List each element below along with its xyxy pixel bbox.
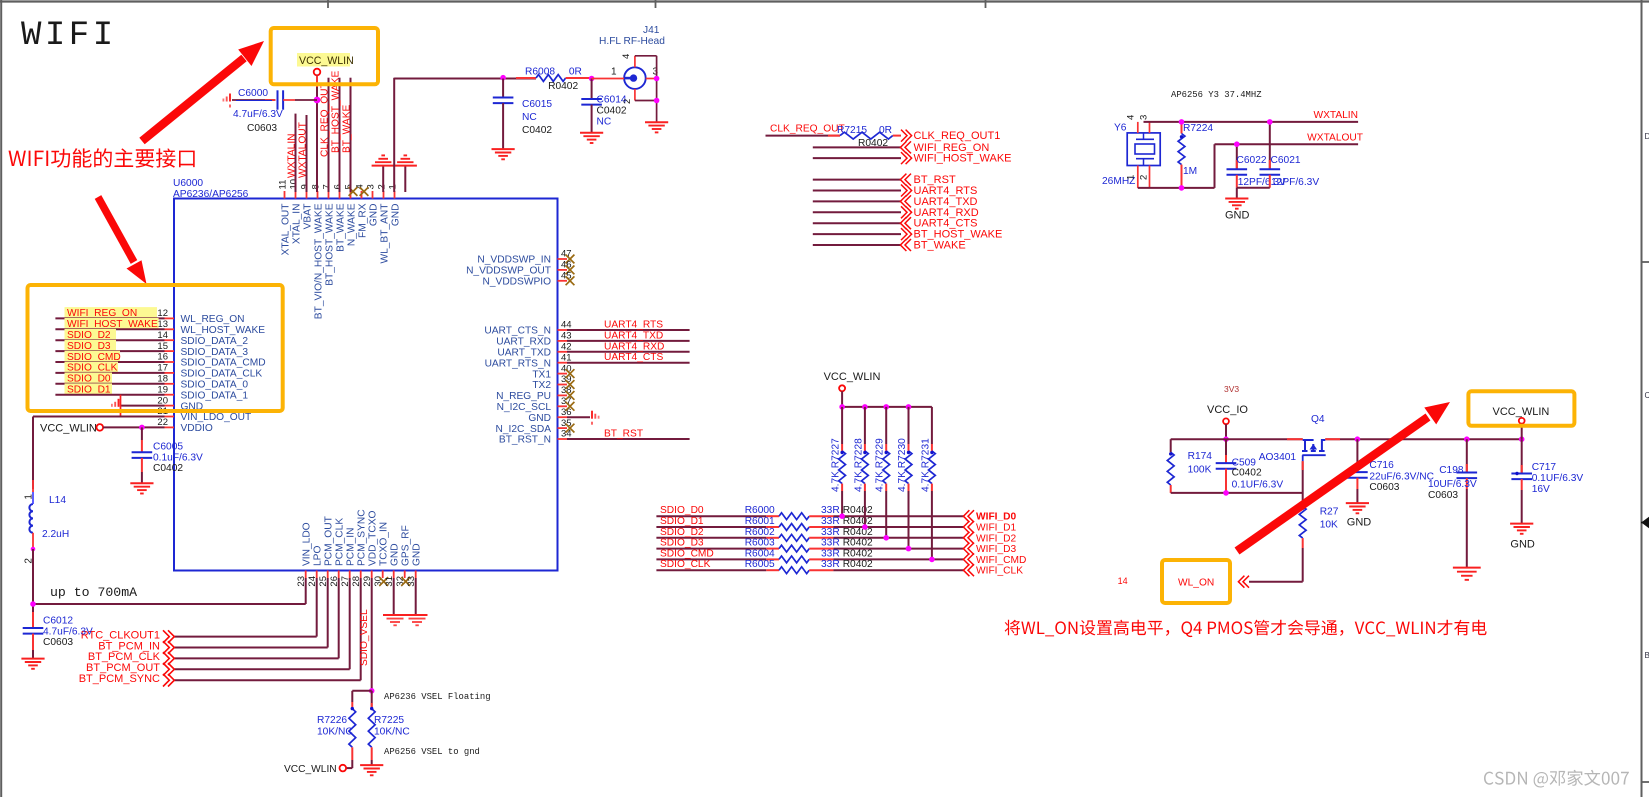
svg-text:4.7K R7230: 4.7K R7230	[897, 438, 908, 492]
svg-text:R0402: R0402	[843, 505, 873, 516]
svg-text:0R: 0R	[879, 125, 892, 136]
svg-text:VCC_WLIN: VCC_WLIN	[1493, 406, 1550, 418]
signal ground glyph (pin20)	[118, 399, 120, 407]
svg-text:1M: 1M	[1183, 166, 1197, 177]
svg-text:SDIO_DATA_CMD: SDIO_DATA_CMD	[181, 358, 266, 369]
annotation red arrow to signal list box	[98, 197, 147, 284]
svg-text:CLK_REQ_OUT: CLK_REQ_OUT	[770, 124, 845, 135]
wire BT_RST	[813, 179, 901, 181]
junction R7230/WIFI_D3	[906, 546, 912, 552]
svg-text:SDIO_DATA_CLK: SDIO_DATA_CLK	[181, 369, 263, 380]
svg-text:UART4_RXD: UART4_RXD	[604, 341, 664, 352]
wire CLK_REQ_OUT	[766, 135, 841, 137]
ground (R7225)	[360, 764, 383, 766]
capacitor C716 22uF NC	[1347, 439, 1434, 503]
net label SDIO_CLK (pin 17, highlighted)	[65, 362, 119, 374]
wire VCC_WLIN right to rail	[1521, 424, 1523, 440]
wire SDIO_D1 right segment	[809, 526, 833, 528]
wire Q4 gate down	[1302, 461, 1304, 506]
svg-text:3: 3	[653, 67, 659, 78]
svg-text:C6012: C6012	[43, 615, 73, 626]
wire SDIO_D1 left segment	[656, 526, 766, 528]
IC U6000 right pin 46 (N_VDDSWP_OUT)	[466, 260, 574, 277]
resistor R7230 4.7K	[897, 407, 912, 492]
svg-text:2: 2	[622, 99, 633, 104]
svg-text:GND: GND	[1347, 517, 1372, 529]
svg-text:CLK_REQ_OUT: CLK_REQ_OUT	[320, 82, 331, 157]
wire R7228 to WIFI_D1	[864, 491, 866, 527]
svg-text:GND: GND	[1225, 210, 1250, 222]
junction J41 pin3	[654, 76, 660, 82]
wire pin3 to ground	[382, 166, 384, 192]
svg-text:4.7K R7231: 4.7K R7231	[920, 438, 931, 492]
wire pin20 GND	[121, 405, 165, 407]
junction R7224 bottom	[1179, 185, 1185, 191]
net WXTALOUT wire (pin10)	[306, 115, 308, 192]
IC U6000 top pin 5 (N_WAKE)	[344, 184, 358, 246]
wire VCC_WLIN to VBAT pin9	[316, 75, 318, 192]
wire BT_RST (pin34)	[567, 438, 690, 440]
wire pin36 GND	[567, 416, 590, 418]
ground (crystal)	[1225, 198, 1248, 200]
svg-text:2: 2	[377, 184, 388, 189]
capacitor C6000	[232, 88, 317, 134]
svg-text:C0402: C0402	[1232, 468, 1262, 479]
port chevron WIFI_REG_ON	[905, 141, 911, 153]
svg-text:N_REG_PU: N_REG_PU	[496, 391, 551, 402]
svg-text:10: 10	[289, 179, 300, 190]
wire SDIO_D3 left segment	[656, 548, 766, 550]
svg-text:C716: C716	[1369, 460, 1394, 471]
svg-text:10UF/6.3V: 10UF/6.3V	[1428, 479, 1477, 490]
svg-text:R7225: R7225	[374, 715, 404, 726]
wire WXTALOUT	[1215, 143, 1359, 145]
IC U6000 right pin 45 (N_VDDSWPIO)	[483, 271, 575, 288]
svg-text:WIFI_CLK: WIFI_CLK	[976, 566, 1023, 577]
svg-text:H.FL RF-Head: H.FL RF-Head	[599, 36, 665, 47]
svg-text:up to 700mA: up to 700mA	[50, 585, 137, 600]
svg-text:GND: GND	[1510, 539, 1535, 551]
svg-text:WL_BT_ANT: WL_BT_ANT	[379, 204, 390, 264]
resistor R6002 33R	[745, 527, 873, 541]
capacitor C717 0.1UF 16V	[1511, 439, 1583, 523]
wire R7229 to WIFI_D2	[885, 491, 887, 538]
wire SDIO_D1 (pin 19)	[55, 394, 164, 396]
power terminal VCC_WLIN (pull-up rail)	[824, 371, 881, 391]
svg-text:4.7K R7229: 4.7K R7229	[875, 438, 886, 492]
wire VCC_WLIN to rail	[841, 391, 843, 407]
wire R7230 to WIFI_D3	[908, 491, 910, 549]
svg-text:PCM_CLK: PCM_CLK	[335, 518, 346, 566]
junction rail R7227	[839, 404, 845, 410]
svg-text:UART4_RTS: UART4_RTS	[604, 320, 663, 331]
inductor L14	[24, 480, 70, 564]
IC U6000 right pin 41 (UART_RTS_N)	[485, 352, 572, 369]
svg-text:VIN_LDO_OUT: VIN_LDO_OUT	[181, 412, 252, 423]
port chevron WIFI_CLK	[968, 564, 974, 576]
port chevron CLK_REQ_OUT1	[901, 130, 907, 142]
svg-text:NC: NC	[522, 112, 537, 123]
svg-text:UART4_CTS: UART4_CTS	[604, 352, 663, 363]
svg-text:33R: 33R	[821, 527, 840, 538]
junction SDIO_VSEL	[369, 688, 375, 694]
ground (C6014)	[580, 132, 603, 134]
IC U6000 top pin 1 (GND)	[388, 184, 402, 226]
svg-text:33R: 33R	[821, 559, 840, 570]
svg-text:R6002: R6002	[745, 527, 775, 538]
wire pin31 GND	[393, 578, 395, 615]
svg-text:BT_RST: BT_RST	[604, 429, 643, 440]
svg-text:C0603: C0603	[43, 637, 73, 648]
port chevron BT_WAKE	[905, 239, 911, 251]
annotation red arrow to VCC_WLIN box (top)	[142, 41, 264, 141]
IC U6000 left pin 17 (SDIO_DATA_CLK)	[157, 363, 262, 380]
wire crystal bottom	[1138, 187, 1215, 189]
wire SDIO_D0 (pin 18)	[55, 383, 164, 385]
svg-text:VCC_WLIN: VCC_WLIN	[824, 371, 881, 383]
svg-text:VCC_WLIN: VCC_WLIN	[299, 55, 354, 67]
resistor R6005 33R	[745, 559, 873, 573]
port chevron BT_PCM_CLK	[163, 652, 169, 665]
port chevron WIFI_CMD	[968, 553, 974, 565]
wire R7231 to WIFI_CMD	[931, 491, 933, 559]
svg-text:3V3: 3V3	[1224, 384, 1239, 394]
capacitor C6014 (NC)	[581, 79, 627, 133]
svg-text:R0402: R0402	[843, 527, 873, 538]
ground (C6012)	[21, 658, 44, 660]
wire UART4_RTS	[813, 190, 901, 192]
IC U6000 right pin 37 (N_I2C_SCL)	[497, 396, 575, 413]
svg-text:AP6236/AP6256: AP6236/AP6256	[173, 189, 249, 200]
svg-text:0.1UF/6.3V: 0.1UF/6.3V	[1532, 473, 1584, 484]
IC U6000 left pin 21 (VIN_LDO_OUT)	[157, 406, 251, 423]
svg-text:SDIO_CMD: SDIO_CMD	[660, 548, 714, 559]
wire SDIO_CLK left segment	[656, 569, 766, 571]
svg-text:SDIO_DATA_1: SDIO_DATA_1	[181, 390, 249, 401]
svg-text:R7215: R7215	[837, 125, 867, 136]
svg-text:R7226: R7226	[317, 715, 347, 726]
svg-text:VDD_TCXO: VDD_TCXO	[368, 510, 379, 566]
IC U6000 bottom pin 23 (VIN_LDO)	[296, 522, 312, 586]
svg-text:9: 9	[300, 184, 311, 189]
svg-text:1: 1	[388, 184, 399, 189]
svg-text:C717: C717	[1532, 462, 1557, 473]
svg-text:3: 3	[1139, 115, 1150, 120]
wire R174 branch	[1170, 439, 1172, 452]
svg-text:UART_RXD: UART_RXD	[496, 337, 551, 348]
svg-text:R0402: R0402	[843, 538, 873, 549]
svg-text:C0402: C0402	[153, 463, 183, 474]
watermark CSDN	[1484, 770, 1629, 788]
IC U6000 bottom pin 25 (PCM_OUT)	[318, 516, 334, 586]
svg-text:0R: 0R	[569, 67, 582, 78]
svg-text:R0402: R0402	[548, 81, 578, 92]
wire VDDIO pin22	[103, 426, 164, 428]
IC U6000 top pin 3 (GND)	[366, 184, 380, 226]
svg-text:GND: GND	[528, 413, 551, 424]
svg-text:C0402: C0402	[522, 125, 552, 136]
wire BT_PCM staircase pin 24	[316, 578, 318, 637]
ground (C6005)	[130, 482, 153, 484]
svg-text:R0402: R0402	[843, 548, 873, 559]
svg-text:B: B	[1645, 651, 1649, 660]
net BT_HOST_WAKE wire (pin7)	[339, 78, 341, 192]
junction C509 bottom	[1223, 490, 1229, 496]
junction C6014/J41	[589, 76, 595, 82]
junction C716	[1355, 436, 1361, 442]
resistor R7224 1M	[1178, 122, 1213, 188]
highlight box WL_ON	[1162, 560, 1230, 603]
svg-text:VIN_LDO: VIN_LDO	[302, 522, 313, 566]
wire R7215 to port	[893, 135, 901, 137]
svg-text:C0402: C0402	[597, 106, 627, 117]
IC U6000 bottom pin 26 (PCM_CLK)	[329, 518, 345, 587]
svg-text:WXTALIN: WXTALIN	[1313, 110, 1358, 121]
port chevron BT_PCM_IN	[163, 641, 169, 654]
IC U6000 right pin 36 (GND)	[528, 407, 571, 424]
svg-text:GND: GND	[390, 543, 401, 566]
junction R7228/WIFI_D1	[862, 524, 868, 530]
wire BT_PCM staircase pin 27	[349, 578, 351, 669]
port chevron WIFI_D1	[968, 521, 974, 533]
wire VSEL left branch	[352, 690, 371, 692]
power terminal VCC_WLIN (top)	[297, 53, 354, 75]
IC U6000 top pin 4 (FM_RX)	[355, 184, 369, 238]
svg-text:10K/NC: 10K/NC	[317, 726, 353, 737]
svg-text:SDIO_CLK: SDIO_CLK	[660, 559, 711, 570]
svg-text:4.7uF/6.3V: 4.7uF/6.3V	[233, 109, 283, 120]
net WXTALIN wire (pin11)	[295, 114, 297, 192]
capacitor C6012	[23, 612, 93, 659]
port chevron UART4_RXD	[901, 206, 907, 218]
svg-text:22uF/6.3V/NC: 22uF/6.3V/NC	[1369, 471, 1434, 482]
connector J41 H.FL RF-Head	[592, 25, 666, 122]
svg-text:BT_WAKE: BT_WAKE	[342, 104, 353, 153]
power terminal VCC_WLIN (pin22 VDDIO)	[40, 422, 103, 434]
resistor R7231 4.7K	[920, 407, 935, 492]
IC U6000 right pin 44 (UART_CTS_N)	[484, 320, 571, 337]
IC U6000 bottom pin 29 (VDD_TCXO)	[362, 510, 378, 586]
svg-text:WIFI_D0: WIFI_D0	[976, 512, 1017, 523]
svg-text:R27: R27	[1320, 507, 1339, 518]
ground (C6015)	[492, 148, 515, 150]
resistor R27 10K	[1299, 507, 1338, 549]
wire WL_BT_ANT pin2 up to RF path	[393, 78, 395, 192]
wire WIFI_HOST_WAKE (pin 13)	[55, 328, 164, 330]
svg-text:BT_WAKE: BT_WAKE	[335, 203, 346, 252]
svg-text:BT_HOST_WAKE: BT_HOST_WAKE	[324, 203, 335, 285]
ground (J41)	[645, 121, 668, 123]
resistor R6000 33R	[745, 505, 873, 519]
svg-text:N_I2C_SCL: N_I2C_SCL	[497, 402, 552, 413]
junction C198	[1464, 436, 1470, 442]
svg-text:R6003: R6003	[745, 538, 775, 549]
IC U6000 left pin 16 (SDIO_DATA_CMD)	[157, 352, 265, 369]
svg-text:WIFI_D3: WIFI_D3	[976, 544, 1017, 555]
IC U6000 left pin 18 (SDIO_DATA_0)	[157, 374, 248, 391]
svg-text:0.1UF/6.3V: 0.1UF/6.3V	[1232, 479, 1284, 490]
net label SDIO_D0 (pin 18, highlighted)	[65, 373, 113, 385]
svg-text:WIFI_D2: WIFI_D2	[976, 533, 1017, 544]
net label SDIO_D1 (pin 19, highlighted)	[65, 383, 113, 395]
svg-text:WIFI_D1: WIFI_D1	[976, 523, 1017, 534]
signal ground glyph (C6000)	[229, 94, 231, 102]
net label SDIO_D2 (pin 14, highlighted)	[65, 329, 117, 341]
wire UART4_RXD (pin 42)	[567, 351, 690, 353]
svg-text:UART_TXD: UART_TXD	[497, 348, 551, 359]
svg-text:NC: NC	[597, 117, 612, 128]
wire R7226 to VCC_WLIN	[351, 760, 353, 768]
IC U6000 bottom pin 33 (GND)	[406, 543, 422, 586]
svg-text:4.7K R7228: 4.7K R7228	[853, 438, 864, 492]
svg-text:33R: 33R	[821, 516, 840, 527]
capacitor C6021 12PF	[1260, 122, 1320, 188]
svg-text:WXTALOUT: WXTALOUT	[1307, 132, 1363, 143]
svg-text:R0402: R0402	[843, 516, 873, 527]
junction VCC_IO	[1223, 436, 1229, 442]
junction C6021 top	[1267, 119, 1273, 125]
svg-text:SDIO_D3: SDIO_D3	[660, 538, 704, 549]
svg-text:AO3401: AO3401	[1259, 452, 1297, 463]
port chevron BT_PCM_SYNC	[163, 674, 169, 687]
wire VCC_IO to rail	[1225, 424, 1227, 439]
svg-text:2: 2	[1139, 175, 1150, 180]
junction R7227/WIFI_D0	[839, 513, 845, 519]
IC U6000 right pin 34 (BT_RST_N)	[499, 429, 572, 446]
transistor Q4 AO3401 (PMOS)	[1259, 414, 1326, 463]
wire BT_WAKE	[813, 244, 901, 246]
net label SDIO_CMD (pin 16, highlighted)	[65, 351, 121, 363]
junction L14 bottom	[31, 547, 36, 552]
port chevron BT_HOST_WAKE	[901, 228, 907, 240]
wire BT_PCM staircase pin 26	[338, 578, 340, 658]
svg-text:BT_VIO/N_HOST_WAKE: BT_VIO/N_HOST_WAKE	[313, 203, 324, 319]
IC U6000 top pin 11 (XTAL_OUT)	[278, 180, 292, 256]
highlight box WIFI signal list	[28, 285, 283, 411]
svg-text:Y6: Y6	[1114, 123, 1127, 134]
IC U6000 right pin 43 (UART_RXD)	[496, 331, 571, 348]
IC U6000 top pin 6 (BT_WAKE)	[333, 184, 347, 252]
net CLK_REQ_OUT wire (pin8)	[328, 78, 330, 192]
svg-text:N_VDDSWP_IN: N_VDDSWP_IN	[477, 255, 551, 266]
junction J41 pin2	[654, 98, 660, 104]
ground (pins 31/33)	[383, 615, 428, 625]
net label WIFI_REG_ON (pin 12, highlighted)	[65, 307, 158, 319]
wire WIFI_HOST_WAKE	[813, 157, 901, 159]
IC U6000 right pin 40 (TX1)	[532, 363, 574, 380]
svg-text:SDIO_D2: SDIO_D2	[660, 527, 704, 538]
wire WIFI_REG_ON	[813, 146, 901, 148]
svg-text:L14: L14	[49, 495, 66, 506]
svg-text:10K: 10K	[1320, 519, 1338, 530]
svg-text:4.7K R7227: 4.7K R7227	[831, 438, 842, 492]
svg-text:WL_HOST_WAKE: WL_HOST_WAKE	[181, 325, 266, 336]
svg-text:C0603: C0603	[1369, 482, 1399, 493]
svg-text:1: 1	[1126, 175, 1137, 180]
IC U6000 left pin 14 (SDIO_DATA_2)	[157, 330, 248, 347]
svg-text:2.2uH: 2.2uH	[42, 529, 69, 540]
svg-text:UART4_TXD: UART4_TXD	[604, 330, 663, 341]
IC U6000 top pin 8 (BT_VIO/N_HOST_WAKE)	[311, 184, 325, 319]
svg-text:AP6256 VSEL to gnd: AP6256 VSEL to gnd	[384, 747, 480, 757]
svg-text:C198: C198	[1439, 465, 1464, 476]
power terminal VCC_WLIN (right)	[1493, 406, 1550, 424]
wire BT_HOST_WAKE	[813, 233, 901, 235]
wire SDIO_CMD left segment	[656, 558, 766, 560]
IC U6000 top pin 9 (VBAT)	[300, 184, 314, 229]
junction pin9/C6000	[314, 97, 321, 104]
svg-text:4: 4	[621, 54, 632, 59]
svg-text:R6005: R6005	[745, 559, 775, 570]
svg-text:VCC_WLIN: VCC_WLIN	[284, 764, 337, 775]
port chevron WL_ON	[1243, 576, 1249, 588]
crystal Y6 26MHZ	[1102, 115, 1160, 188]
port chevron WIFI_HOST_WAKE	[901, 152, 907, 164]
svg-text:R6008: R6008	[525, 67, 555, 78]
wire SDIO_D0 right segment	[809, 515, 833, 517]
resistor R6003 33R	[745, 538, 873, 552]
wire UART4_RXD	[813, 211, 901, 213]
power terminal VCC_WLIN (VSEL)	[284, 764, 346, 775]
svg-text:BT_PCM_SYNC: BT_PCM_SYNC	[79, 673, 160, 685]
svg-text:TX2: TX2	[532, 380, 551, 391]
IC U6000 right pin 47 (N_VDDSWP_IN)	[477, 249, 574, 266]
svg-text:C0603: C0603	[247, 123, 277, 134]
svg-text:R7224: R7224	[1183, 123, 1213, 134]
svg-text:6: 6	[333, 184, 344, 189]
svg-text:UART_RTS_N: UART_RTS_N	[485, 358, 551, 369]
net BT_WAKE wire (pin6)	[350, 78, 352, 192]
junction C6022 top	[1234, 141, 1240, 147]
svg-text:VDDIO: VDDIO	[181, 423, 213, 434]
svg-text:R6000: R6000	[745, 505, 775, 516]
svg-text:GPS_RF: GPS_RF	[401, 525, 412, 566]
svg-text:GND: GND	[390, 204, 401, 227]
power rail to Q4	[1171, 438, 1303, 440]
wire BT_PCM staircase pin 28	[360, 578, 362, 680]
IC U6000 right pin 35 (N_I2C_SDA)	[496, 418, 575, 435]
wire UART4_CTS	[813, 222, 901, 224]
ground (C717)	[1510, 523, 1533, 525]
wire R7227 to WIFI_D0	[841, 491, 843, 516]
svg-text:Q4: Q4	[1311, 414, 1325, 425]
annotation red arrow to VCC_WLIN (right)	[1237, 402, 1450, 551]
power terminal 3V3 / VCC_IO	[1207, 384, 1248, 424]
svg-text:CLK_REQ_OUT1: CLK_REQ_OUT1	[914, 130, 1001, 142]
wire SDIO_D2 (pin 14)	[55, 339, 164, 341]
wire SDIO_CMD (pin 16)	[55, 361, 164, 363]
IC U6000 right pin 38 (N_REG_PU)	[496, 385, 574, 402]
wire SDIO_CLK right segment	[809, 569, 833, 571]
annotation text WIFI main interface (chinese)	[9, 148, 195, 167]
IC U6000 top pin 7 (BT_HOST_WAKE)	[322, 184, 336, 286]
wire VIN_LDO pin23 to 700mA rail	[305, 578, 307, 604]
IC U6000 left pin 20 (GND)	[157, 395, 203, 412]
IC U6000 left pin 19 (SDIO_DATA_1)	[157, 384, 248, 401]
resistor R7229 4.7K	[875, 407, 890, 492]
ground (pin3, inverted)	[372, 165, 395, 167]
wire SDIO_D3 right segment	[809, 548, 833, 550]
resistor R7215 0R	[837, 125, 893, 149]
highlight box VCC_WLIN (right)	[1468, 391, 1574, 426]
svg-text:BT_WAKE: BT_WAKE	[914, 240, 966, 252]
IC U6000 bottom pin 27 (PCM_IN)	[340, 528, 356, 587]
svg-text:UART_CTS_N: UART_CTS_N	[484, 326, 551, 337]
ground (C716)	[1346, 502, 1369, 504]
svg-text:R6004: R6004	[745, 548, 775, 559]
port chevron WIFI_D3	[968, 543, 974, 555]
svg-text:C6005: C6005	[153, 441, 183, 452]
